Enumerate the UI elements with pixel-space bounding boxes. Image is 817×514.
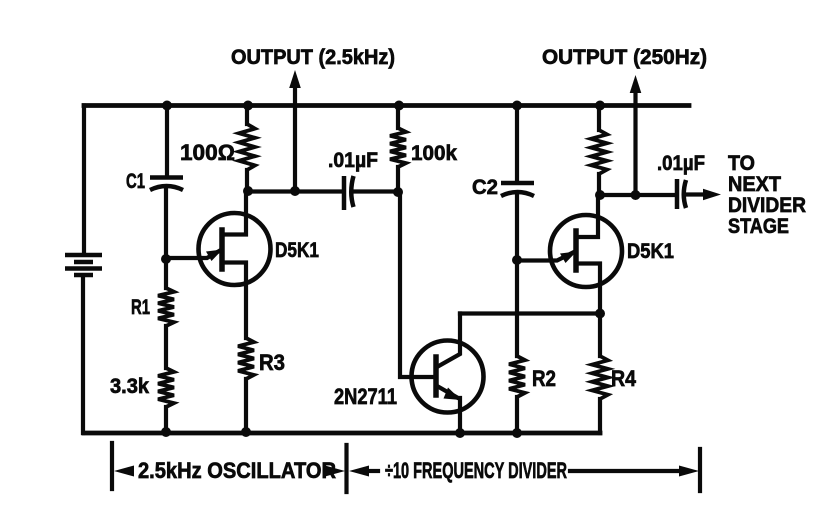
node 100ohm bottom xyxy=(243,186,253,196)
wire drain row left segment xyxy=(248,189,342,193)
svg-text:D5K1: D5K1 xyxy=(275,239,319,262)
wire Q3 B1 lead xyxy=(576,264,600,314)
arrowhead divider left xyxy=(349,466,369,477)
node right drain row xyxy=(595,190,605,200)
arrowhead Q1 emitter xyxy=(206,250,223,262)
wire Q3 B2 lead xyxy=(576,195,598,237)
arrowhead output 2.5kHz xyxy=(289,70,301,88)
node 100k bottom xyxy=(393,187,403,197)
battery B1 xyxy=(65,255,102,275)
wire Q1 emitter lead xyxy=(166,251,220,259)
resistor R2 xyxy=(509,356,525,397)
tick middle xyxy=(344,445,348,492)
wire Q2 emitter xyxy=(437,386,460,433)
resistor 3.3k xyxy=(158,368,174,407)
wire 100ohm to drain row xyxy=(245,170,249,191)
wire Q3 emitter lead xyxy=(517,253,573,261)
resistor 100ohm xyxy=(239,124,255,170)
wire R2 to ground xyxy=(515,397,519,433)
transistor Q3 base bar xyxy=(573,231,579,270)
arrowhead oscillator left xyxy=(114,466,134,477)
resistor R1 xyxy=(158,288,174,326)
resistor R4 xyxy=(592,356,608,399)
node R2 ground xyxy=(512,428,522,438)
arrowhead Q2 emitter xyxy=(444,388,462,401)
arrowhead Q3 emitter xyxy=(560,252,577,264)
node feedback R4 xyxy=(595,309,605,319)
wire right resistor to node xyxy=(597,174,601,195)
wire cap to next stage xyxy=(688,192,706,196)
transistor Q1 base bar xyxy=(219,230,225,269)
svg-text:D5K1: D5K1 xyxy=(627,240,674,263)
arrowhead to next stage xyxy=(703,189,721,201)
wire Q1 B1 lead xyxy=(222,263,246,339)
wire divider dash xyxy=(570,469,680,473)
node right resistor top xyxy=(595,101,605,111)
arrowhead divider right xyxy=(679,466,699,477)
wire right drain row xyxy=(600,193,674,197)
arrowhead output 250Hz xyxy=(630,75,642,93)
svg-text:R4: R4 xyxy=(611,366,637,391)
resistor right collector xyxy=(591,130,607,174)
wire feedback row xyxy=(460,311,600,315)
node R branch at ground xyxy=(161,427,171,437)
arrowhead oscillator right xyxy=(325,466,345,477)
svg-text:STAGE: STAGE xyxy=(728,215,789,238)
svg-text:100Ω: 100Ω xyxy=(180,140,235,165)
wire C1 branch top xyxy=(165,106,169,177)
node C2 top xyxy=(512,101,522,111)
transistor Q2 2N2711 circle xyxy=(412,341,484,413)
transistor Q2 base bar xyxy=(433,357,439,395)
svg-text:C1: C1 xyxy=(126,170,145,193)
wire left battery branch upper xyxy=(82,106,86,254)
resistor 100k xyxy=(390,128,406,167)
capacitor C2 xyxy=(501,183,534,196)
svg-text:.01µF: .01µF xyxy=(328,149,378,172)
wire R4 to ground corner xyxy=(598,399,602,433)
svg-text:.01µF: .01µF xyxy=(657,152,705,175)
wire right resistor top lead xyxy=(597,106,601,131)
svg-text:÷10 FREQUENCY DIVIDER: ÷10 FREQUENCY DIVIDER xyxy=(385,458,567,483)
node R3 ground xyxy=(241,427,251,437)
svg-text:2.5kHz OSCILLATOR: 2.5kHz OSCILLATOR xyxy=(138,458,336,483)
tick right xyxy=(698,449,702,491)
svg-text:OUTPUT (250Hz): OUTPUT (250Hz) xyxy=(542,46,707,69)
wire Q1 B2 lead xyxy=(222,191,246,235)
node emitter junction left xyxy=(161,254,171,264)
wire left battery branch lower xyxy=(81,277,85,433)
wire bottom ground rail xyxy=(84,431,600,436)
wire output 2.5kHz shaft xyxy=(293,86,297,191)
svg-text:100k: 100k xyxy=(411,142,457,165)
svg-text:C2: C2 xyxy=(472,176,498,199)
capacitor .01uF left xyxy=(344,176,354,210)
wire cap to 100k node xyxy=(355,189,398,193)
wire C2 to R2 branch xyxy=(515,194,519,356)
wire output 250Hz shaft xyxy=(633,91,637,195)
svg-text:3.3k: 3.3k xyxy=(110,375,149,398)
node 100k top xyxy=(394,101,404,111)
wire between R1 and 3.3k xyxy=(164,326,168,368)
node right emitter junction xyxy=(512,255,522,265)
node Q2 emitter ground xyxy=(455,428,465,438)
node output tap 2.5kHz xyxy=(290,186,300,196)
wire Q2 collector xyxy=(437,314,460,368)
wire C2 top lead xyxy=(515,106,519,182)
wire R3 to ground xyxy=(244,379,248,433)
wire R4 branch xyxy=(598,314,602,357)
svg-text:R3: R3 xyxy=(259,350,285,375)
wire top supply rail xyxy=(84,103,689,108)
capacitor .01uF right xyxy=(677,179,686,209)
svg-text:R2: R2 xyxy=(532,366,556,391)
wire C1 branch to emitter node xyxy=(164,188,168,288)
transistor Q3 D5K1 (UJT) circle xyxy=(550,215,622,287)
transistor Q1 D5K1 (UJT) circle xyxy=(199,213,271,285)
wire 100k to base of Q2 xyxy=(398,167,433,377)
svg-text:R1: R1 xyxy=(131,296,150,319)
capacitor C1 xyxy=(150,178,183,191)
wire 100k top lead xyxy=(396,106,400,129)
svg-text:NEXT: NEXT xyxy=(728,173,781,196)
svg-text:2N2711: 2N2711 xyxy=(334,384,397,409)
node output tap 250Hz xyxy=(631,190,641,200)
wire 100ohm branch top xyxy=(245,106,249,125)
node 100ohm top xyxy=(243,101,253,111)
svg-text:DIVIDER: DIVIDER xyxy=(728,194,806,217)
svg-text:OUTPUT (2.5kHz): OUTPUT (2.5kHz) xyxy=(231,46,395,69)
svg-text:TO: TO xyxy=(728,152,755,175)
resistor R3 xyxy=(238,338,254,379)
wire divider left short tail xyxy=(367,469,378,473)
wire 3.3k to ground rail xyxy=(164,407,168,433)
tick left oscillator xyxy=(110,443,114,489)
node C1 top xyxy=(162,101,172,111)
